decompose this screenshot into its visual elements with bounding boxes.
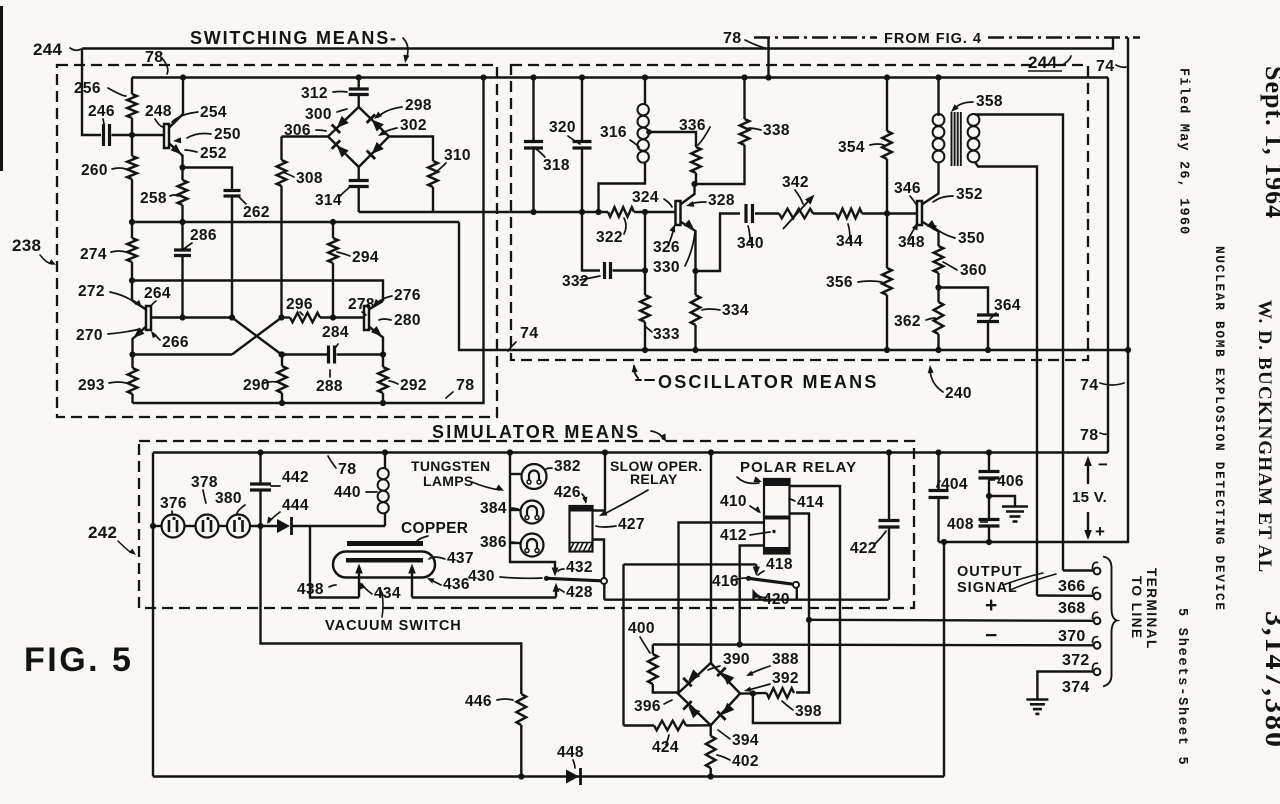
svg-text:78: 78 bbox=[145, 49, 163, 66]
wire net78 right margin bbox=[1107, 78, 1109, 453]
svg-text:242: 242 bbox=[88, 523, 117, 542]
wire cross diagonal A bbox=[232, 318, 282, 355]
junction R356 gnd bbox=[884, 347, 890, 353]
wire R362 top bbox=[937, 288, 939, 303]
wire R293 top bbox=[131, 355, 133, 369]
wire cap318 bottom bbox=[532, 148, 534, 212]
vacuum switch contact 434 bbox=[358, 569, 360, 598]
wire cap332 right bbox=[613, 269, 646, 271]
transformer 358 secondary bbox=[968, 114, 980, 162]
wire y725 left bbox=[624, 724, 655, 726]
wire R356 top bbox=[886, 214, 888, 269]
capacitor 314 bbox=[349, 181, 369, 187]
svg-text:382: 382 bbox=[554, 458, 581, 475]
ground near 408 bbox=[1002, 507, 1028, 522]
svg-text:350: 350 bbox=[958, 230, 985, 247]
wire R290 top bbox=[281, 355, 283, 367]
wire R342 to R344 bbox=[813, 212, 836, 214]
svg-text:437: 437 bbox=[447, 550, 474, 567]
wire R333 tap down bbox=[644, 212, 646, 271]
junction relay427 rail bbox=[602, 449, 608, 455]
arrow variable 342 bbox=[783, 197, 812, 229]
resistor 260 bbox=[127, 156, 137, 179]
svg-text:352: 352 bbox=[956, 186, 983, 203]
junction R362 gnd bbox=[935, 347, 941, 353]
wire R293 bottom bbox=[131, 394, 133, 403]
wire cap340 to R342 bbox=[755, 212, 779, 214]
wire y354 left bbox=[133, 353, 233, 355]
resistor 294 bbox=[328, 238, 338, 263]
svg-text:392: 392 bbox=[772, 670, 799, 687]
svg-text:244: 244 bbox=[1028, 53, 1058, 72]
emitter arrow 326 bbox=[684, 220, 698, 234]
svg-text:324: 324 bbox=[632, 189, 659, 206]
wire R400 to bridge left bbox=[653, 684, 678, 694]
svg-text:374: 374 bbox=[1062, 679, 1090, 696]
svg-text:366: 366 bbox=[1058, 578, 1086, 595]
battery arrow 15V top bbox=[1087, 459, 1089, 484]
wire R260 leads bbox=[131, 135, 133, 156]
svg-text:294: 294 bbox=[352, 249, 379, 266]
junction riser at +rail bbox=[941, 539, 947, 545]
wire R274 bottom bbox=[131, 262, 133, 281]
wire R400 top bbox=[652, 645, 654, 655]
svg-text:78: 78 bbox=[456, 377, 474, 394]
wire cap406 top bbox=[988, 453, 990, 472]
diode bridge 298 frame bbox=[328, 107, 389, 167]
svg-text:408: 408 bbox=[947, 516, 974, 533]
resistor 356 bbox=[882, 268, 892, 295]
junction emitter node 248 bbox=[179, 164, 185, 170]
svg-text:412: 412 bbox=[720, 527, 747, 544]
wire R308 top bbox=[280, 137, 282, 161]
svg-text:NUCLEAR BOMB EXPLOSION DETECTI: NUCLEAR BOMB EXPLOSION DETECTING DEVICE bbox=[1212, 246, 1227, 612]
wire R362 bottom bbox=[937, 334, 939, 350]
svg-text:364: 364 bbox=[994, 297, 1021, 314]
svg-text:372: 372 bbox=[1062, 652, 1090, 669]
wire emitter 326 bbox=[680, 222, 695, 272]
junction R338 rail bbox=[741, 74, 747, 80]
resistor 296 bbox=[290, 313, 320, 323]
wire cap406-408 mid bbox=[988, 478, 990, 520]
svg-text:436: 436 bbox=[443, 576, 470, 593]
wire polar left upper bbox=[679, 523, 765, 694]
junction collector node 264 bbox=[129, 277, 135, 283]
wire emitter jog cap340 bbox=[696, 214, 741, 272]
wire R260 bottom bbox=[131, 179, 133, 222]
wire cross diagonal B bbox=[232, 318, 282, 355]
wire secondary bottom lead bbox=[975, 162, 1037, 596]
svg-text:TO LINE: TO LINE bbox=[1129, 576, 1144, 640]
junction coil316 rail bbox=[642, 74, 648, 80]
tungsten lamp 382 bbox=[522, 464, 547, 489]
wire relay427 bottom to pivot bbox=[593, 540, 605, 578]
wire cap286 bottom bbox=[181, 256, 183, 318]
wire 623 drop bbox=[622, 564, 624, 725]
svg-text:426: 426 bbox=[554, 484, 581, 501]
leader oscillator means bbox=[634, 366, 654, 380]
wire cap288 to emitter 278 bbox=[337, 353, 384, 355]
capacitor 404 bbox=[929, 491, 949, 498]
resistor 360 bbox=[934, 246, 944, 273]
brace to line terminal bbox=[1103, 557, 1117, 687]
wire cap318 top bbox=[532, 78, 534, 142]
svg-text:288: 288 bbox=[316, 378, 343, 395]
junction coil316 mid bbox=[595, 209, 601, 215]
wire lamp ladder bbox=[510, 453, 555, 570]
svg-text:388: 388 bbox=[772, 651, 799, 668]
resistor 342 bbox=[779, 209, 813, 219]
wire R333 top bbox=[644, 271, 646, 296]
junction emitter node 264 bbox=[129, 351, 135, 357]
svg-text:W. D. BUCKINGHAM ET AL: W. D. BUCKINGHAM ET AL bbox=[1254, 300, 1275, 573]
wire terminal368 stub bbox=[1037, 594, 1094, 597]
wire cap312 bottom bbox=[358, 95, 360, 108]
wire cap320 top bbox=[581, 78, 583, 142]
copper strip bbox=[347, 541, 423, 546]
wire gnd stub bbox=[989, 496, 1015, 507]
terminal 372 bbox=[1094, 642, 1101, 649]
wire cap332 left bbox=[582, 212, 600, 271]
transistor 278 bbox=[364, 306, 369, 330]
wire collector 346 bbox=[922, 163, 939, 205]
junction cap320 mid bbox=[579, 209, 585, 215]
wire net74 right margin bbox=[939, 38, 1129, 543]
wire rail drop R256 bbox=[131, 78, 133, 95]
wire R398 left bbox=[753, 692, 767, 695]
svg-text:COPPER: COPPER bbox=[401, 520, 468, 537]
resistor 344 bbox=[836, 209, 862, 219]
wire lamp376-378 bbox=[185, 525, 196, 527]
wire right return riser bbox=[943, 542, 945, 777]
svg-text:248: 248 bbox=[145, 103, 172, 120]
wire R308 bottom bbox=[280, 186, 282, 318]
wire diode444 out bbox=[292, 525, 386, 527]
junction 739 y644 bbox=[737, 641, 743, 647]
svg-text:400: 400 bbox=[628, 620, 655, 637]
svg-text:74: 74 bbox=[1096, 58, 1114, 75]
svg-text:342: 342 bbox=[782, 174, 809, 191]
svg-text:256: 256 bbox=[74, 80, 101, 97]
wire y725 to bridge bottom bbox=[686, 724, 711, 727]
resistor 398 bbox=[767, 688, 795, 698]
wire R336 bottom bbox=[695, 173, 697, 184]
inductor 440 bbox=[378, 468, 389, 513]
svg-text:334: 334 bbox=[722, 302, 749, 319]
wire coil316 top bbox=[644, 78, 646, 105]
capacitor 312 bbox=[349, 89, 369, 95]
transistor 264 bbox=[146, 306, 151, 330]
wire y354 right w/cap288 bbox=[282, 353, 328, 355]
wire coil440 bottom bbox=[384, 513, 386, 526]
wire R308 to bridge left bbox=[282, 135, 329, 137]
contact dot 430 bbox=[544, 576, 549, 581]
wire y222 bus bbox=[132, 221, 459, 223]
wire node to cap364 bbox=[939, 288, 989, 316]
wire lamp386 stub bbox=[510, 542, 521, 544]
svg-text:354: 354 bbox=[838, 139, 865, 156]
bridge diode 302 bbox=[367, 114, 385, 132]
svg-text:310: 310 bbox=[444, 147, 471, 164]
junction polar relay rail bbox=[708, 449, 714, 455]
svg-text:78: 78 bbox=[723, 30, 741, 47]
vacuum switch contact 438 bbox=[411, 569, 413, 598]
svg-text:78: 78 bbox=[1080, 427, 1098, 444]
svg-text:Filed May 26, 1960: Filed May 26, 1960 bbox=[1176, 68, 1191, 235]
tungsten lamp 384 bbox=[521, 501, 544, 524]
junction R260 y222 bbox=[129, 219, 135, 225]
svg-text:316: 316 bbox=[600, 124, 627, 141]
resistor 293 bbox=[128, 368, 138, 394]
svg-text:SIMULATOR MEANS: SIMULATOR MEANS bbox=[432, 422, 640, 442]
wire oscillator ground rail bbox=[459, 222, 1128, 350]
wire lamp382 stub bbox=[510, 473, 522, 475]
simulator means dashed box bbox=[139, 441, 914, 608]
junction cap318 mid bbox=[530, 209, 536, 215]
wire polar rail drop to bridge bbox=[710, 453, 712, 664]
svg-text:254: 254 bbox=[200, 104, 227, 121]
junction fig4 tap bbox=[765, 74, 771, 80]
svg-text:370: 370 bbox=[1058, 628, 1086, 645]
svg-text:POLAR RELAY: POLAR RELAY bbox=[740, 459, 857, 476]
tungsten lamp 386 bbox=[521, 534, 544, 557]
wire collector 278 bbox=[369, 301, 383, 310]
contact 418 bbox=[755, 564, 757, 568]
wire R292 top bbox=[382, 355, 384, 368]
bridge diode 394 bbox=[717, 702, 735, 720]
junction R294 y222 bbox=[330, 219, 336, 225]
svg-text:274: 274 bbox=[80, 246, 107, 263]
wire R296 left bbox=[282, 316, 291, 318]
svg-text:356: 356 bbox=[826, 274, 853, 291]
capacitor 340 bbox=[746, 204, 753, 223]
junction mid 406 408 bbox=[986, 493, 992, 499]
wire fig4 tap to rail bbox=[767, 38, 769, 78]
svg-text:384: 384 bbox=[480, 500, 507, 517]
bridge diode 390 bbox=[683, 669, 701, 687]
blade 430 bbox=[547, 578, 602, 581]
svg-text:270: 270 bbox=[76, 327, 103, 344]
junction base 264 diag bbox=[229, 314, 235, 320]
svg-text:404: 404 bbox=[941, 476, 968, 493]
wire mid signal bus bbox=[359, 211, 608, 213]
svg-text:VACUUM SWITCH: VACUUM SWITCH bbox=[325, 618, 462, 634]
wire R402 bottom bbox=[710, 768, 712, 777]
svg-text:390: 390 bbox=[723, 651, 750, 668]
svg-text:292: 292 bbox=[400, 377, 427, 394]
leader simulator means bbox=[651, 431, 663, 439]
svg-text:380: 380 bbox=[215, 490, 242, 507]
svg-text:306: 306 bbox=[284, 122, 311, 139]
scan edge mark bbox=[0, 6, 3, 171]
capacitor 408 bbox=[979, 520, 1000, 527]
svg-text:330: 330 bbox=[653, 259, 680, 276]
svg-text:338: 338 bbox=[763, 122, 790, 139]
svg-text:262: 262 bbox=[243, 204, 270, 221]
diode bridge 388 frame bbox=[678, 663, 740, 725]
wire bottom return rail bbox=[153, 775, 944, 777]
terminal 366 bbox=[1094, 568, 1101, 575]
svg-text:427: 427 bbox=[618, 516, 645, 533]
svg-text:246: 246 bbox=[88, 103, 115, 120]
junction R296 left bbox=[278, 314, 284, 320]
svg-text:74: 74 bbox=[1080, 377, 1098, 394]
resistor 354 bbox=[882, 131, 892, 159]
wire vac switch to relay contact bbox=[412, 596, 556, 598]
wire R334 bottom bbox=[694, 325, 696, 350]
svg-text:SWITCHING MEANS-: SWITCHING MEANS- bbox=[190, 28, 398, 48]
wire cap314 top bbox=[358, 167, 360, 181]
svg-text:Sept. 1, 1964: Sept. 1, 1964 bbox=[1260, 66, 1280, 219]
wire polar left lower bbox=[740, 546, 764, 645]
emitter arrow 264 bbox=[131, 328, 145, 342]
svg-text:440: 440 bbox=[334, 484, 361, 501]
blade 416 bbox=[749, 578, 794, 584]
wire terminal372 line bbox=[653, 643, 1094, 646]
bridge diode 304 bbox=[367, 141, 385, 159]
svg-text:78: 78 bbox=[338, 461, 356, 478]
svg-text:278: 278 bbox=[348, 296, 375, 313]
wire R274 top bbox=[131, 222, 133, 238]
wire R294 bottom bbox=[332, 263, 334, 318]
resistor 256 bbox=[127, 94, 137, 118]
wire xfmr primary top bbox=[937, 78, 939, 117]
wire lamp row left bbox=[153, 525, 162, 527]
wire R258 leads bbox=[181, 168, 183, 181]
svg-text:402: 402 bbox=[732, 753, 759, 770]
svg-text:406: 406 bbox=[997, 473, 1024, 490]
junction R290 rail bbox=[279, 400, 285, 406]
svg-text:328: 328 bbox=[708, 192, 735, 209]
bridge diode 300 bbox=[332, 115, 350, 133]
lamp 376 bbox=[162, 515, 185, 538]
bridge diode 306 bbox=[332, 140, 350, 158]
svg-text:312: 312 bbox=[301, 85, 328, 102]
wire cap442 bottom bbox=[259, 490, 261, 526]
wire R290 bottom bbox=[281, 393, 283, 403]
wire branch to vac switch bbox=[310, 526, 359, 598]
junction collector 326 bbox=[691, 181, 697, 187]
svg-text:336: 336 bbox=[679, 117, 706, 134]
polar relay 410 coils bbox=[764, 479, 790, 554]
relay contact 432 bbox=[552, 568, 559, 577]
junction base node 248 bbox=[129, 132, 135, 138]
transformer 358 primary bbox=[933, 114, 945, 162]
svg-text:326: 326 bbox=[653, 239, 680, 256]
wire pivot416 drop bbox=[796, 588, 798, 600]
junction coil316 tap bbox=[646, 129, 652, 135]
junction net74 ground rail bbox=[1125, 347, 1131, 353]
lamp 380 bbox=[227, 515, 250, 538]
junction y354 right node bbox=[278, 351, 284, 357]
svg-text:320: 320 bbox=[549, 119, 576, 136]
terminal 374 bbox=[1094, 668, 1101, 675]
svg-text:378: 378 bbox=[191, 474, 218, 491]
svg-text:333: 333 bbox=[653, 326, 680, 343]
vacuum switch blade 437 bbox=[346, 558, 423, 563]
wire contact418 feed bbox=[624, 563, 757, 565]
junction R446 rail bbox=[518, 773, 524, 779]
wire cap286 top bbox=[181, 222, 183, 250]
wire cap404 bottom bbox=[937, 498, 939, 543]
junction R258 y222 bbox=[179, 219, 185, 225]
wire R296 right bbox=[320, 316, 364, 318]
transformer 358 core bbox=[952, 112, 961, 166]
junction R356 node bbox=[884, 210, 890, 216]
resistor 310 bbox=[428, 161, 438, 187]
wire R402 top bbox=[710, 725, 712, 736]
svg-text:258: 258 bbox=[140, 190, 167, 207]
wire y281 bus bbox=[132, 281, 383, 302]
svg-text:272: 272 bbox=[78, 283, 105, 300]
wire xfmr primary bottom bbox=[937, 162, 939, 163]
svg-text:442: 442 bbox=[282, 469, 309, 486]
wire R356 bottom bbox=[886, 295, 888, 350]
wire cap314 bottom bbox=[358, 187, 360, 213]
svg-text:−: − bbox=[985, 624, 998, 647]
contact dot 416 bbox=[746, 576, 751, 581]
vacuum switch envelope 436 bbox=[333, 552, 435, 578]
resistor 322 bbox=[608, 207, 634, 217]
relay contact 428 bbox=[555, 590, 557, 598]
svg-text:410: 410 bbox=[720, 493, 747, 510]
wire polar divider jog bbox=[790, 514, 810, 693]
junction cap408 +rail bbox=[986, 539, 992, 545]
svg-text:296: 296 bbox=[286, 296, 313, 313]
svg-text:+: + bbox=[1095, 522, 1105, 541]
wire terminal374 line bbox=[1037, 672, 1093, 700]
resistor 292 bbox=[378, 367, 388, 393]
svg-text:444: 444 bbox=[282, 497, 309, 514]
svg-text:346: 346 bbox=[894, 180, 921, 197]
resistor 362 bbox=[934, 302, 944, 334]
wire common bus y600 bbox=[604, 599, 888, 601]
svg-text:74: 74 bbox=[520, 325, 538, 342]
capacitor 442 bbox=[250, 484, 271, 490]
switching means dashed box bbox=[57, 65, 497, 417]
resistor 402 bbox=[706, 736, 716, 768]
svg-text:266: 266 bbox=[162, 334, 189, 351]
junction cap442 lamp wire bbox=[257, 523, 263, 529]
wire R292 bottom bbox=[382, 393, 384, 403]
junction lamp ladder rail bbox=[507, 449, 513, 455]
svg-text:414: 414 bbox=[797, 494, 824, 511]
wire coil440 top bbox=[384, 453, 386, 469]
junction R402 rail bbox=[708, 773, 714, 779]
wire lamp384 stub bbox=[510, 509, 521, 511]
wire lamp378-380 bbox=[219, 525, 228, 527]
wire terminal366 stub bbox=[1063, 569, 1094, 571]
svg-text:260: 260 bbox=[81, 162, 108, 179]
resistor 338 bbox=[740, 119, 750, 145]
svg-text:314: 314 bbox=[315, 192, 342, 209]
svg-text:362: 362 bbox=[894, 313, 921, 330]
svg-text:298: 298 bbox=[405, 97, 432, 114]
svg-text:398: 398 bbox=[795, 703, 822, 720]
wire net244 top bbox=[82, 38, 1113, 49]
svg-text:424: 424 bbox=[652, 739, 679, 756]
wire simulator left drop bbox=[152, 453, 154, 777]
wire emitter 264 bbox=[133, 327, 147, 355]
wire cap246 to base node bbox=[112, 134, 165, 136]
wire R354 bottom bbox=[886, 159, 888, 214]
junction lamp row left bbox=[150, 523, 156, 529]
svg-text:420: 420 bbox=[763, 591, 790, 608]
wire pivot430 drop bbox=[603, 584, 605, 600]
junction R334 gnd bbox=[692, 347, 698, 353]
svg-text:244: 244 bbox=[33, 40, 63, 59]
resistor 400 bbox=[648, 654, 658, 684]
